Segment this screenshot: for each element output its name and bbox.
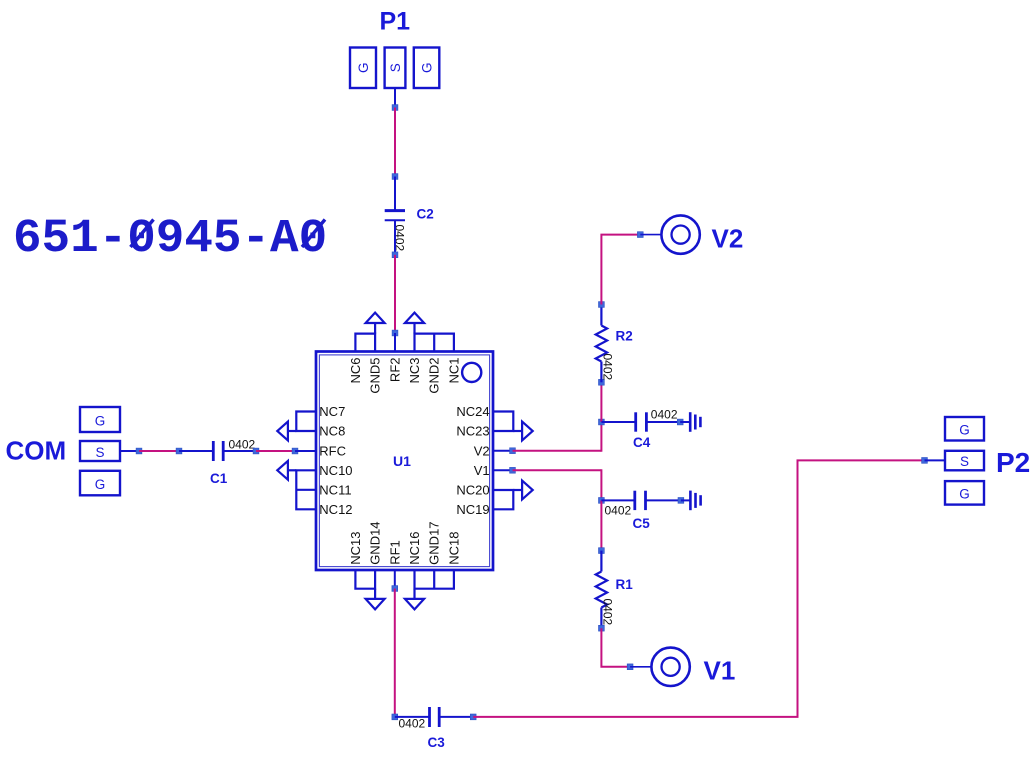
svg-text:RF2: RF2 (387, 358, 402, 383)
svg-text:V1: V1 (474, 463, 490, 478)
U1 bottom pin names (348, 521, 462, 564)
svg-text:RF1: RF1 (387, 540, 402, 565)
wire RF1 lead (394, 570, 396, 589)
svg-text:NC6: NC6 (348, 358, 363, 384)
value R2 0402 (600, 354, 614, 381)
svg-text:NC18: NC18 (446, 532, 461, 565)
wire net C2-RF2 (394, 255, 396, 333)
svg-text:S: S (960, 454, 969, 469)
wire net R1-V1conn (601, 628, 630, 667)
junction U1.V1 (510, 467, 516, 473)
label C5 (633, 516, 651, 531)
ground C5 (690, 491, 700, 511)
wire net R2-V2conn (601, 235, 640, 305)
svg-text:S: S (388, 63, 403, 72)
junction C3 pin2 (470, 714, 476, 720)
label U1 (393, 453, 411, 469)
port COM pad G2 (80, 471, 120, 496)
svg-text:G: G (959, 487, 970, 502)
svg-text:G: G (95, 477, 106, 492)
junction R2 pin1 (599, 302, 605, 308)
svg-text:R2: R2 (616, 329, 633, 344)
port COM pad G1 (80, 407, 120, 432)
wire C1 pin2 lead (223, 450, 256, 452)
wire net C1-RFC (256, 450, 295, 452)
svg-text:NC11: NC11 (319, 482, 351, 497)
svg-text:NC8: NC8 (319, 424, 345, 439)
wire net V1 horizontal (513, 469, 602, 471)
port P2 label (996, 447, 1030, 478)
wire COM.S lead (120, 450, 139, 452)
arrow port top-right (405, 313, 424, 334)
U1 left pin names (319, 404, 352, 517)
wire net P1-C2 (394, 108, 396, 177)
wire V2 conn lead (640, 234, 660, 236)
junction RF2 (392, 330, 398, 336)
junction C5 pin2 (678, 498, 684, 504)
value C2 0402 (392, 225, 406, 252)
wire net RF1-C3 (394, 589, 396, 717)
wire net V2 vertical (600, 422, 602, 452)
wire net C3-P2 (473, 460, 924, 717)
wire C2 pin1 lead (394, 177, 396, 210)
U1 NC6/GND5 bracket (355, 334, 375, 352)
arrow port left-upper (277, 422, 296, 441)
svg-text:NC7: NC7 (319, 404, 345, 419)
label V1 (704, 656, 736, 686)
junction R1 pin2 (599, 625, 605, 631)
wire C4 pin2 lead (646, 421, 680, 423)
junction C2 pin2 (392, 252, 398, 258)
capacitor C3 (430, 707, 440, 727)
wire net COM-C1 (139, 450, 179, 452)
connector V1 circle (651, 648, 689, 686)
label C2 (417, 207, 434, 222)
label R2 (616, 329, 633, 344)
port P2 pad S (945, 451, 984, 471)
svg-text:G: G (959, 423, 970, 438)
svg-text:0402: 0402 (600, 354, 614, 381)
wire C3 pin2 lead (439, 716, 473, 718)
arrow port top-left (366, 313, 385, 334)
svg-text:G: G (356, 62, 371, 73)
label C4 (633, 435, 651, 450)
wire RF2 lead (394, 333, 396, 352)
junction V2 conn pin (637, 232, 643, 238)
wire C3 pin1 lead (395, 716, 430, 718)
svg-text:GND2: GND2 (427, 358, 442, 394)
wire net V2 to R2 (600, 382, 602, 422)
resistor R2 (596, 305, 607, 383)
ground C4 (690, 412, 700, 432)
wire net V2 horizontal (513, 450, 602, 452)
port COM label (6, 436, 67, 466)
wire RFC lead (295, 450, 316, 452)
wire P1.S lead (394, 88, 396, 108)
junction P1.S (392, 105, 398, 111)
wire net V1 to R1 (600, 500, 602, 550)
svg-text:C1: C1 (210, 471, 228, 486)
svg-text:NC23: NC23 (456, 424, 489, 439)
svg-text:C4: C4 (633, 435, 651, 450)
svg-text:0402: 0402 (605, 504, 632, 518)
label V2 (712, 224, 744, 254)
port P1 label (380, 8, 411, 36)
wire U1.V1 lead (493, 469, 513, 471)
U1 NC24/NC23 bracket (493, 412, 513, 432)
junction V1 conn pin (627, 664, 633, 670)
junction RF1 (392, 586, 398, 592)
label C3 (428, 735, 446, 750)
label R1 (616, 577, 634, 592)
capacitor C4 (636, 412, 647, 431)
svg-text:G: G (95, 414, 106, 429)
arrow port right-upper (513, 422, 532, 441)
junction C1 pin2 (253, 448, 259, 454)
resistor R1 (596, 551, 607, 629)
svg-text:NC19: NC19 (456, 502, 489, 517)
U1 NC7/NC8 bracket (296, 412, 316, 432)
value R1 0402 (600, 599, 614, 626)
label C1 (210, 471, 228, 486)
wire C5 pin1 lead (601, 499, 634, 501)
wire P2.S lead (925, 459, 946, 461)
svg-text:P2: P2 (996, 447, 1030, 478)
svg-text:COM: COM (6, 436, 67, 466)
junction COM.S (136, 448, 142, 454)
arrow port bottom-right (405, 589, 424, 610)
capacitor C2 (385, 211, 405, 221)
junction C4 tap (599, 419, 605, 425)
svg-text:S: S (95, 445, 104, 460)
svg-text:NC10: NC10 (319, 463, 352, 478)
svg-text:NC13: NC13 (348, 532, 363, 565)
svg-text:GND17: GND17 (427, 521, 442, 564)
U1 top pin names (348, 358, 462, 394)
port P1 pad G2 (414, 48, 440, 89)
wire C5 gnd stub (681, 499, 690, 501)
junction C5 tap (599, 498, 605, 504)
value C3 0402 (399, 716, 426, 730)
svg-text:NC20: NC20 (456, 482, 489, 497)
junction R2 pin2 (599, 379, 605, 385)
svg-text:GND5: GND5 (368, 358, 383, 394)
value C4 0402 (651, 408, 678, 422)
svg-text:NC12: NC12 (319, 502, 352, 517)
value C5 0402 (605, 504, 632, 518)
svg-text:GND14: GND14 (368, 521, 383, 564)
U1 NC10/NC11/NC12 bracket (296, 470, 316, 509)
wire C5 pin2 lead (646, 499, 681, 501)
title 651-0945-A0 (13, 212, 327, 266)
svg-text:P1: P1 (380, 8, 411, 36)
arrow port left-lower (277, 461, 296, 480)
svg-text:C3: C3 (428, 735, 446, 750)
wire C4 pin1 lead (601, 421, 635, 423)
arrow port bottom-left (366, 589, 385, 610)
wire C2 pin2 lead (394, 220, 396, 255)
svg-text:0402: 0402 (651, 408, 678, 422)
svg-text:V2: V2 (474, 443, 490, 458)
wire V1 conn lead (630, 666, 651, 668)
junction U1.V2 (510, 448, 516, 454)
svg-text:C5: C5 (633, 516, 651, 531)
junction RFC (292, 448, 298, 454)
svg-text:V1: V1 (704, 656, 736, 686)
svg-text:NC24: NC24 (456, 404, 489, 419)
svg-text:0402: 0402 (399, 716, 426, 730)
port P2 pad G1 (945, 417, 984, 441)
U1 right pin names (456, 404, 489, 517)
port P1 pad S (385, 48, 406, 89)
svg-text:V2: V2 (712, 224, 744, 254)
U1 NC16/GND17/NC18 bracket (415, 570, 454, 589)
capacitor C1 (213, 441, 223, 461)
junction C4 pin2 (677, 419, 683, 425)
svg-text:R1: R1 (616, 577, 634, 592)
svg-text:RFC: RFC (319, 443, 346, 458)
U1 pin-1 mark circle (462, 363, 481, 382)
arrow port right-lower (513, 481, 532, 500)
capacitor C5 (635, 491, 646, 510)
svg-text:G: G (419, 62, 434, 73)
svg-text:0402: 0402 (229, 438, 256, 452)
wire C1 pin1 lead (179, 450, 213, 452)
junction C2 pin1 (392, 174, 398, 180)
wire U1.V2 lead (493, 450, 513, 452)
svg-text:NC3: NC3 (407, 358, 422, 384)
svg-text:651-0945-A0: 651-0945-A0 (13, 212, 327, 266)
port P1 pad G1 (350, 48, 376, 89)
port COM pad S (80, 441, 120, 461)
port P2 pad G2 (945, 481, 984, 505)
op-amp U1 body (316, 352, 493, 571)
U1 NC13/GND14 bracket (355, 570, 375, 589)
junction P2.S (922, 458, 928, 464)
value C1 0402 (229, 438, 256, 452)
wire C4 gnd stub (680, 421, 689, 423)
U1 NC3/GND2/NC1 bracket (415, 334, 454, 352)
wire net V1 vertical (600, 469, 602, 500)
junction C1 pin1 (176, 448, 182, 454)
svg-text:U1: U1 (393, 453, 411, 469)
connector V2 circle (661, 215, 699, 253)
svg-text:NC1: NC1 (446, 358, 461, 384)
junction R1 pin1 (599, 548, 605, 554)
U1 NC20/NC19 bracket (493, 490, 513, 509)
junction C3 pin1 (392, 714, 398, 720)
svg-text:0402: 0402 (600, 599, 614, 626)
svg-text:C2: C2 (417, 207, 434, 222)
svg-text:NC16: NC16 (407, 532, 422, 565)
